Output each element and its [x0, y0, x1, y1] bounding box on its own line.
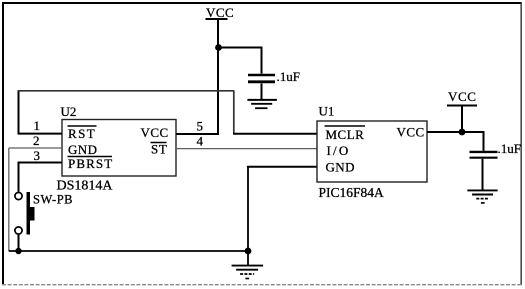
pin label RST (pin 1) with overline: [68, 126, 97, 141]
node junction ground rail right: [245, 248, 252, 255]
wire GND net vertical down left: [8, 148, 10, 251]
svg-text:U1: U1: [319, 104, 335, 119]
svg-text:.1uF: .1uF: [498, 141, 521, 156]
svg-text:PIC16F84A: PIC16F84A: [319, 185, 385, 200]
wire U1 VCC stub right: [427, 131, 462, 133]
wire U2 pin 1 stub: [18, 133, 63, 135]
wire MCLR net horizontal top: [18, 90, 235, 92]
svg-text:U2: U2: [61, 104, 77, 119]
switch SW-PB: [15, 192, 35, 235]
svg-text:5: 5: [197, 119, 204, 134]
svg-text:2: 2: [33, 133, 40, 148]
node junction right VCC: [459, 129, 466, 136]
ground below top capacitor: [247, 100, 277, 108]
op-amp? no: IC U2 DS1814A box: [57, 104, 177, 193]
wire U1 GND down: [247, 167, 249, 251]
svg-text:1: 1: [34, 118, 41, 133]
wire VCC symbol vertical right: [461, 106, 463, 133]
wire branch to top capacitor: [219, 48, 262, 74]
wire ST to I/O net: [176, 148, 317, 150]
svg-text:RST: RST: [68, 126, 96, 141]
svg-text:.1uF: .1uF: [277, 69, 300, 84]
ground below right capacitor: [467, 190, 497, 203]
node junction at top VCC: [215, 44, 222, 51]
svg-text:VCC: VCC: [141, 125, 169, 140]
power VCC right symbol: [447, 89, 477, 106]
IC U1 PIC16F84A box: [317, 104, 427, 200]
wire switch bottom to ground rail: [18, 234, 20, 251]
node junction switch/ground rail: [15, 248, 21, 254]
capacitor C top .1uF: [248, 75, 275, 100]
svg-text:DS1814A: DS1814A: [57, 178, 114, 193]
svg-text:MCLR: MCLR: [326, 127, 365, 142]
svg-text:PBRST: PBRST: [68, 156, 113, 171]
svg-text:GND: GND: [68, 142, 97, 157]
wire U2 pin 5 stub to VCC: [176, 133, 219, 135]
svg-text:I/O: I/O: [327, 143, 351, 158]
wire MCLR net to U1: [233, 133, 317, 135]
svg-text:GND: GND: [326, 159, 355, 174]
power VCC top symbol: [206, 5, 235, 20]
wire branch to right capacitor: [462, 132, 484, 151]
wire bottom ground rail: [9, 250, 248, 252]
wire U1 GND stub: [247, 166, 317, 168]
wire U2 pin 2 GND stub: [9, 147, 62, 149]
svg-text:VCC: VCC: [397, 125, 425, 140]
wire pin3 vertical down to switch: [18, 163, 20, 192]
capacitor right .1uF: [470, 152, 498, 191]
svg-text:VCC: VCC: [206, 5, 234, 20]
svg-text:VCC: VCC: [448, 89, 477, 104]
wire pin1 vertical up: [18, 91, 20, 135]
svg-text:ST: ST: [151, 142, 167, 157]
pin label MCLR with overline: [325, 126, 366, 142]
svg-text:SW-PB: SW-PB: [33, 193, 73, 207]
wire U2 pin 3 PBRST stub: [18, 162, 63, 164]
pin label ST (pin 4) with overline: [151, 142, 168, 157]
pin label PBRST (pin 3) with overline: [68, 156, 114, 171]
svg-text:4: 4: [197, 134, 204, 149]
wire VCC vertical to U2 pin 5: [217, 19, 219, 135]
svg-text:3: 3: [34, 148, 41, 163]
wire MCLR net vertical down: [233, 91, 235, 134]
ground bottom center: [232, 254, 264, 279]
